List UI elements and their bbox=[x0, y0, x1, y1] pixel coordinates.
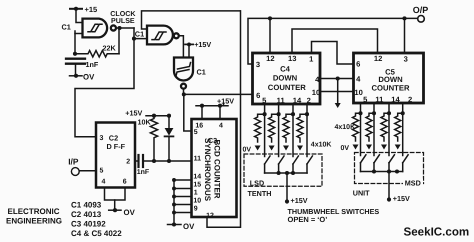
op-amp U1c schmitt NAND gate C1 (vertical) bbox=[174, 58, 193, 89]
svg-text:COUNTER: COUNTER bbox=[268, 83, 306, 92]
node clock branch bbox=[132, 37, 136, 41]
svg-text:4x10K: 4x10K bbox=[335, 124, 356, 131]
svg-text:0V: 0V bbox=[341, 145, 350, 152]
wire C4 bottom pin stubs bbox=[263, 104, 310, 157]
power +15V rail (C3 pins 16,4) bbox=[196, 104, 228, 120]
resistors 4x10K (LSD bank) bbox=[255, 114, 307, 150]
node C4.4 branch bbox=[336, 76, 340, 80]
resistors 4x10K (MSD bank) bbox=[353, 113, 403, 149]
thumbwheel switch box LSD (dashed) bbox=[244, 154, 322, 186]
node U1c output bbox=[182, 92, 186, 96]
svg-text:OPEN = ‘O’: OPEN = ‘O’ bbox=[288, 215, 328, 224]
svg-text:DOWN: DOWN bbox=[273, 74, 298, 83]
node diode bottom bbox=[167, 159, 171, 163]
thumbwheel switch box MSD (dashed) bbox=[355, 153, 424, 184]
wire U1c output to C3 pin 5 bbox=[184, 94, 192, 131]
svg-text:5: 5 bbox=[100, 167, 104, 174]
svg-text:1nF: 1nF bbox=[86, 60, 99, 69]
svg-text:SeekIC.com: SeekIC.com bbox=[404, 226, 470, 239]
svg-text:BCD COUNTER: BCD COUNTER bbox=[213, 139, 222, 198]
label C5 pins and title bbox=[354, 54, 412, 104]
svg-text:+15V: +15V bbox=[217, 96, 234, 105]
wire I/P to C2 pin 5 bbox=[79, 170, 96, 172]
svg-text:1nF: 1nF bbox=[137, 169, 150, 176]
schmitt symbol inside U1a bbox=[88, 24, 102, 32]
op-amp U1a schmitt NAND gate C1 bbox=[83, 19, 116, 38]
svg-text:10K: 10K bbox=[138, 117, 152, 126]
wire +15V to U1c input bbox=[188, 44, 190, 57]
wire U1c output to C4 pin 6 bbox=[184, 93, 253, 95]
svg-text:C4: C4 bbox=[280, 64, 291, 73]
svg-text:3: 3 bbox=[256, 60, 260, 69]
terminal O/P bbox=[413, 5, 429, 22]
svg-text:O/P: O/P bbox=[413, 5, 429, 15]
svg-text:10: 10 bbox=[354, 88, 362, 97]
counter C4 box bbox=[253, 53, 321, 104]
wire U1b output down to U1c bbox=[179, 36, 184, 58]
wire net C4.1 C5.6 bbox=[312, 42, 354, 65]
ground 0V (C2) bbox=[109, 208, 121, 212]
svg-text:9: 9 bbox=[194, 206, 198, 213]
svg-text:C2 4013: C2 4013 bbox=[71, 210, 102, 219]
label CLOCK PULSE bbox=[110, 10, 136, 25]
svg-text:10: 10 bbox=[312, 88, 320, 97]
wire net C4.13 C5.12 bbox=[292, 29, 378, 53]
node clock output bbox=[117, 26, 121, 30]
svg-text:+15V: +15V bbox=[393, 194, 410, 203]
label MSD bbox=[403, 179, 423, 187]
svg-text:LSD: LSD bbox=[250, 178, 264, 187]
switches LSD bbox=[265, 156, 313, 175]
wire C3 pin 12 feedback to U1b input bbox=[207, 11, 241, 227]
svg-text:14: 14 bbox=[293, 96, 302, 105]
schmitt symbol inside U1b bbox=[152, 32, 166, 40]
power +15V tick (U1c input) bbox=[185, 42, 193, 46]
wire cap to 0V bbox=[75, 65, 77, 76]
wire cap to C3 pin 11 bbox=[143, 160, 192, 162]
wire +15V rail to 10K and diode bbox=[146, 115, 169, 117]
svg-text:11: 11 bbox=[194, 156, 202, 163]
wire MSD common to +15V bbox=[388, 172, 390, 200]
resistor R1 22K bbox=[75, 51, 119, 57]
svg-text:2: 2 bbox=[126, 159, 130, 166]
wire net C4.3 C4.12 C5.3 O/P bbox=[248, 16, 417, 64]
ground 0V (oscillator) bbox=[70, 74, 83, 78]
svg-text:+15: +15 bbox=[85, 5, 98, 14]
svg-text:6: 6 bbox=[256, 91, 260, 100]
power +15V (LSD) bbox=[285, 199, 289, 203]
wire gate U1a output bbox=[116, 27, 134, 29]
capacitor C2 1nF (oscillator) bbox=[66, 59, 85, 64]
svg-text:OV: OV bbox=[83, 73, 95, 82]
wire net C4.10 C5.10 bbox=[320, 91, 354, 93]
svg-text:UNIT: UNIT bbox=[353, 188, 370, 197]
svg-text:3: 3 bbox=[100, 135, 104, 142]
terminal I/P bbox=[68, 156, 79, 175]
label ELECTRONIC ENGINEERING bbox=[6, 207, 62, 226]
svg-text:2: 2 bbox=[408, 95, 412, 104]
svg-text:SYNCHRONOUS: SYNCHRONOUS bbox=[203, 138, 212, 202]
wire LSD common to +15V bbox=[286, 173, 288, 202]
svg-text:D F-F: D F-F bbox=[107, 142, 126, 151]
node diode top bbox=[167, 114, 171, 118]
svg-text:ENGINEERING: ENGINEERING bbox=[6, 216, 62, 225]
wire C2 pin 2 to cap bbox=[135, 160, 139, 162]
svg-text:13: 13 bbox=[288, 54, 296, 63]
wire U1c output bbox=[183, 89, 185, 95]
node 10K top bbox=[152, 114, 156, 118]
svg-text:14: 14 bbox=[391, 95, 400, 104]
wire C5 bottom pin stubs bbox=[358, 103, 404, 156]
svg-text:C1: C1 bbox=[197, 67, 206, 76]
svg-text:ELECTRONIC: ELECTRONIC bbox=[8, 207, 60, 216]
svg-text:14: 14 bbox=[193, 173, 201, 180]
svg-text:1: 1 bbox=[194, 190, 198, 197]
svg-text:C1 4093: C1 4093 bbox=[71, 201, 102, 210]
svg-text:C1: C1 bbox=[135, 30, 144, 39]
svg-text:OV: OV bbox=[183, 222, 195, 231]
svg-text:4x10K: 4x10K bbox=[311, 141, 332, 148]
svg-text:4: 4 bbox=[102, 179, 106, 186]
counter C5 box bbox=[354, 53, 424, 103]
counter C3 box bbox=[192, 119, 237, 217]
svg-text:TENTH: TENTH bbox=[248, 189, 272, 198]
svg-text:C4 & C5 4022: C4 & C5 4022 bbox=[71, 229, 122, 238]
capacitor C3 1nF (FF output) bbox=[139, 155, 144, 167]
wire lower input stub bbox=[75, 33, 83, 35]
wire +15 to gate U1a top input bbox=[76, 9, 83, 23]
power +15 supply bar (oscillator) bbox=[70, 7, 82, 11]
label parts list bbox=[71, 201, 122, 238]
resistor R2 10K bbox=[150, 116, 157, 161]
svg-text:C3 40192: C3 40192 bbox=[71, 219, 106, 228]
svg-text:5: 5 bbox=[194, 129, 198, 136]
label C3 pins and title bbox=[193, 122, 223, 219]
power +15V (MSD) bbox=[387, 197, 391, 201]
svg-text:MSD: MSD bbox=[405, 179, 421, 188]
schmitt symbol inside U1c bbox=[176, 63, 191, 77]
wire C3 left pins 14,15,1,10,9 bus bbox=[172, 178, 191, 224]
svg-text:15: 15 bbox=[193, 182, 201, 189]
node RC junction bbox=[73, 52, 77, 56]
wire input rail to gate U1a lower input bbox=[74, 31, 76, 54]
svg-text:6: 6 bbox=[356, 60, 360, 69]
svg-text:+15V: +15V bbox=[125, 108, 142, 117]
svg-text:+15V: +15V bbox=[291, 196, 308, 205]
wire clock to gate U1b lower input bbox=[134, 28, 147, 39]
svg-text:PULSE: PULSE bbox=[111, 17, 135, 25]
svg-text:I/P: I/P bbox=[68, 156, 79, 166]
svg-text:OV: OV bbox=[124, 208, 136, 217]
svg-text:12: 12 bbox=[374, 54, 382, 63]
flip-flop C2 D F-F box bbox=[96, 123, 135, 188]
svg-text:11: 11 bbox=[375, 95, 384, 104]
label C2 pins and title bbox=[100, 134, 131, 186]
wire U1b upper input from feedback bbox=[142, 11, 241, 29]
wire branch down with arrow bbox=[335, 79, 341, 109]
svg-text:4: 4 bbox=[219, 122, 223, 129]
ground 0V (C3 bus) bbox=[168, 222, 182, 226]
diode D1 bbox=[165, 116, 174, 161]
node 10K bottom bbox=[152, 159, 156, 163]
svg-text:COUNTER: COUNTER bbox=[371, 83, 409, 92]
switches MSD bbox=[361, 155, 409, 174]
svg-text:+15V: +15V bbox=[194, 40, 211, 49]
op-amp U1b schmitt NAND gate C1 bbox=[147, 26, 179, 45]
svg-text:22K: 22K bbox=[103, 43, 117, 52]
svg-text:6: 6 bbox=[123, 179, 127, 186]
wire C2 pins 4,6 to ground bbox=[105, 188, 126, 210]
label C4 pins and title bbox=[256, 54, 320, 105]
svg-text:3: 3 bbox=[404, 55, 408, 64]
wire feedback to 22K bbox=[118, 28, 120, 54]
svg-text:12: 12 bbox=[266, 54, 274, 63]
svg-text:C2: C2 bbox=[109, 134, 118, 143]
wire net C4.4 C5.4 bbox=[320, 78, 354, 80]
svg-text:C1: C1 bbox=[62, 23, 71, 32]
svg-text:10: 10 bbox=[193, 198, 201, 205]
wire clock branch down to FF clock bbox=[75, 39, 134, 137]
svg-text:0V: 0V bbox=[243, 146, 252, 153]
